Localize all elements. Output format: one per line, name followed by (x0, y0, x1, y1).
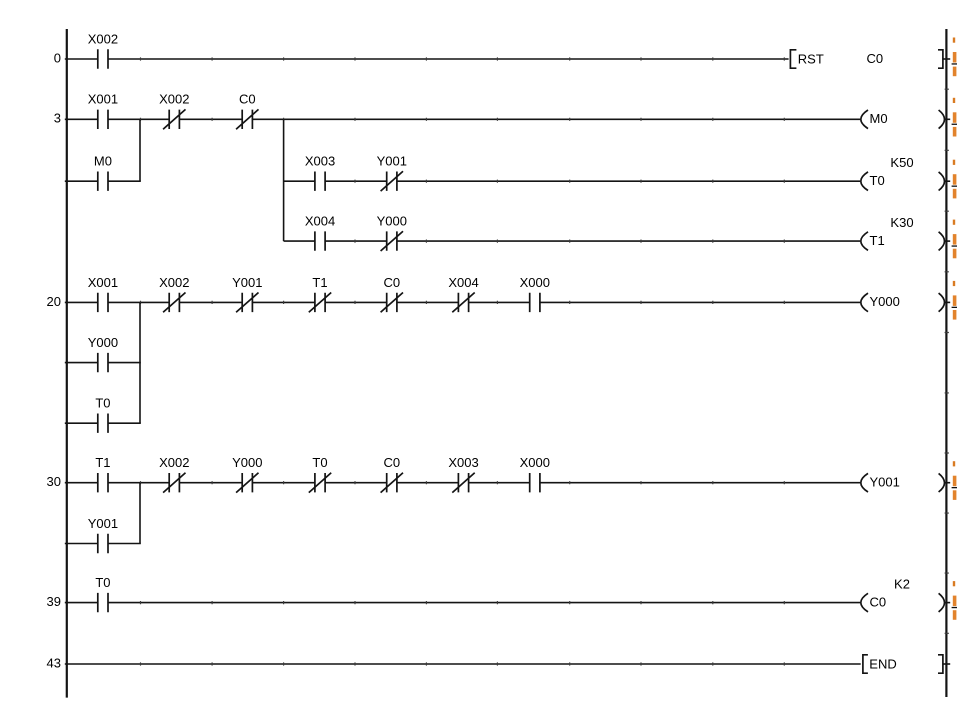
contact T0 (rung 30, NC) (309, 455, 331, 493)
rung 3 wire (65, 118, 860, 121)
contact T1 (rung 20, NC) (309, 275, 331, 313)
contact X002 (rung 30, NC) (159, 455, 189, 493)
svg-text:0: 0 (54, 50, 61, 65)
svg-text:C0: C0 (867, 51, 884, 66)
svg-text:X002: X002 (159, 275, 189, 290)
branch wire rung 30 parallel (139, 483, 141, 544)
comment fragment (rung 0) (952, 38, 957, 77)
rung 30 wire (65, 481, 860, 484)
contact T0 (parallel, NO) (95, 396, 110, 433)
branch wire to timer sub-rungs (283, 119, 285, 241)
svg-text:M0: M0 (94, 154, 112, 169)
svg-text:C0: C0 (239, 92, 256, 107)
svg-text:Y000: Y000 (377, 214, 407, 229)
sub-rung T1 wire (284, 240, 860, 243)
svg-text:C0: C0 (383, 455, 400, 470)
svg-text:X004: X004 (305, 214, 335, 229)
contact T1 (rung 30, NO) (95, 455, 110, 492)
coil M0 (861, 110, 950, 129)
comment fragment (rung 3) (952, 98, 957, 137)
svg-text:Y001: Y001 (88, 516, 118, 531)
svg-text:T0: T0 (95, 396, 110, 411)
branch T0 wire (65, 422, 141, 424)
svg-text:K30: K30 (890, 215, 913, 230)
svg-text:K2: K2 (894, 576, 910, 591)
contact X001 (rung 20, NO) (88, 275, 118, 312)
contact M0 (parallel branch, NO) (94, 154, 112, 191)
svg-text:C0: C0 (383, 275, 400, 290)
sub-rung T0 wire (284, 180, 860, 183)
svg-text:X002: X002 (159, 455, 189, 470)
branch Y001 wire (65, 543, 141, 545)
instruction END (863, 655, 950, 673)
branch M0 wire (65, 180, 141, 182)
contact T0 (rung 39, NO) (95, 575, 110, 612)
comment fragment (rung 39) (952, 581, 957, 620)
contact C0 (rung 20, NC) (381, 275, 403, 313)
comment fragment (rung 30) (952, 461, 957, 500)
svg-text:K50: K50 (890, 155, 913, 170)
contact X004 (NO) (305, 214, 335, 251)
svg-text:X000: X000 (520, 455, 550, 470)
contact X000 (rung 30, NO) (520, 455, 550, 492)
svg-text:Y001: Y001 (377, 154, 407, 169)
contact Y001 (parallel, NO) (88, 516, 118, 553)
svg-text:END: END (869, 656, 896, 671)
right rail row ticks (945, 89, 949, 633)
contact Y000 (rung 30, NC) (232, 455, 262, 493)
svg-text:RST: RST (798, 51, 824, 66)
svg-text:X004: X004 (448, 275, 478, 290)
contact Y001 (rung 20, NC) (232, 275, 262, 313)
svg-text:X002: X002 (159, 92, 189, 107)
branch Y000 wire (65, 362, 141, 364)
comment fragment (T0 rung) (952, 160, 957, 199)
coil C0 (861, 593, 950, 612)
svg-text:Y000: Y000 (232, 455, 262, 470)
svg-text:43: 43 (47, 655, 61, 670)
contact X002 (rung 20, NC) (159, 275, 189, 313)
contact Y001 (NC) (377, 154, 407, 192)
contact X002 (rung 3, NC) (159, 92, 189, 130)
svg-text:X002: X002 (88, 31, 118, 46)
contact X003 (rung 30, NC) (448, 455, 478, 493)
svg-text:X001: X001 (88, 275, 118, 290)
svg-text:T0: T0 (312, 455, 327, 470)
svg-text:T1: T1 (95, 455, 110, 470)
svg-text:Y000: Y000 (870, 294, 900, 309)
rung 39 wire (65, 601, 860, 604)
svg-text:C0: C0 (870, 594, 887, 609)
svg-text:M0: M0 (870, 111, 888, 126)
svg-text:X000: X000 (520, 275, 550, 290)
left power rail (66, 29, 68, 698)
svg-text:39: 39 (47, 594, 61, 609)
comment fragment (rung 20) (952, 281, 957, 320)
contact X000 (rung 20, NO) (520, 275, 550, 312)
svg-text:T0: T0 (870, 173, 885, 188)
contact X001 (rung 3, NO) (88, 92, 118, 129)
branch wire rung 20 parallel (139, 302, 141, 423)
svg-text:T0: T0 (95, 575, 110, 590)
contact X002 (rung 0, NO) (88, 31, 118, 68)
contact Y000 (NC) (377, 214, 407, 252)
svg-text:3: 3 (54, 111, 61, 126)
contact Y000 (parallel, NO) (88, 335, 118, 372)
svg-text:30: 30 (47, 474, 61, 489)
rung 20 wire (65, 301, 860, 304)
svg-text:X003: X003 (305, 154, 335, 169)
contact C0 (rung 30, NC) (381, 455, 403, 493)
contact X003 (NO) (305, 154, 335, 191)
branch wire M0 parallel (139, 119, 141, 181)
svg-text:X001: X001 (88, 92, 118, 107)
coil T1 (861, 232, 950, 251)
svg-text:T1: T1 (870, 233, 885, 248)
rung 0 wire (65, 57, 789, 60)
contact C0 (rung 3, NC) (236, 92, 258, 130)
coil Y000 (861, 293, 950, 312)
coil Y001 (861, 473, 950, 492)
rung 43 wire (65, 662, 861, 665)
contact X004 (rung 20, NC) (448, 275, 478, 313)
svg-text:Y001: Y001 (870, 475, 900, 490)
coil T0 (861, 172, 950, 191)
svg-text:X003: X003 (448, 455, 478, 470)
right power rail (945, 29, 947, 697)
svg-text:20: 20 (47, 294, 61, 309)
instruction RST C0 (790, 50, 950, 68)
svg-text:T1: T1 (312, 275, 327, 290)
svg-text:Y001: Y001 (232, 275, 262, 290)
comment fragment (T1 rung) (952, 220, 957, 259)
svg-text:Y000: Y000 (88, 335, 118, 350)
